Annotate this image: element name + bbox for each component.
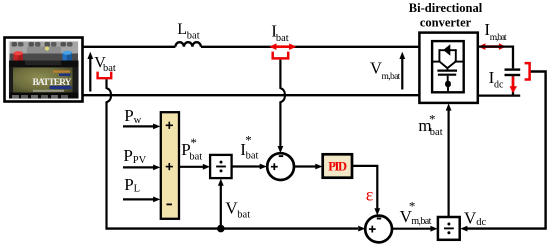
svg-text:bat: bat	[276, 33, 289, 44]
svg-text:bat: bat	[189, 151, 202, 162]
svg-text:w: w	[134, 115, 142, 126]
wire: top wire battery to inductor	[82, 46, 175, 48]
wire: m*_bat from divider D2 up to converter	[448, 110, 450, 218]
label I*_bat	[240, 132, 258, 161]
label I_dc	[489, 68, 504, 91]
label I_m,bat	[484, 20, 507, 43]
svg-text:PID: PID	[328, 160, 347, 174]
current probe I_m,bat (red double arrow)	[478, 43, 506, 50]
wire: P_PV input arrow	[123, 166, 154, 168]
wire: bottom wire to summer S2	[105, 227, 358, 229]
wire: V_dc from capacitor bracket to divider D2	[467, 72, 546, 229]
wire: summer S2 to divider D2	[392, 228, 431, 230]
wire: V_bat up into divider D1	[220, 185, 222, 229]
svg-text:P: P	[123, 146, 132, 165]
label P_w	[124, 106, 141, 126]
svg-text:P: P	[124, 175, 133, 194]
wire: I*_bat into summer S1	[232, 165, 261, 167]
svg-text:converter: converter	[420, 15, 472, 29]
current arrow I_dc (red down arrow)	[510, 77, 518, 94]
label V_dc	[464, 209, 486, 229]
wire: P_L input arrow	[123, 198, 154, 200]
wire: top wire inductor to converter	[201, 46, 420, 48]
svg-text:bat: bat	[187, 30, 200, 41]
svg-text:m,bat: m,bat	[490, 33, 507, 43]
svg-text:dc: dc	[476, 217, 486, 228]
wire: converter right second wire	[478, 94, 520, 96]
label m*_bat	[418, 112, 442, 139]
svg-text:*: *	[245, 132, 252, 147]
label I_bat	[271, 21, 289, 44]
inductor L1 (L_bat humps)	[175, 42, 201, 47]
probe bracket V_dc (red, right of capacitor)	[525, 63, 530, 79]
svg-text:*: *	[190, 135, 197, 150]
svg-text:Bi-directional: Bi-directional	[409, 1, 483, 15]
wire: PID output down to summer S2	[352, 166, 377, 209]
svg-text:bat: bat	[237, 209, 250, 220]
svg-text:m,bat: m,bat	[382, 72, 401, 82]
wire: second wire battery to converter	[82, 94, 420, 96]
wire: P*_bat to divider D1	[179, 166, 204, 168]
svg-text:bat: bat	[246, 151, 259, 162]
svg-text:bat: bat	[103, 63, 116, 74]
label V*_m,bat	[400, 199, 432, 227]
svg-text:L: L	[177, 21, 187, 38]
current probe I_bat (red double arrow)	[269, 43, 296, 58]
svg-text:PV: PV	[133, 155, 147, 166]
svg-text:*: *	[409, 199, 416, 214]
svg-text:V: V	[370, 58, 382, 77]
svg-text:V: V	[464, 209, 477, 228]
converter U1 outer box	[419, 33, 477, 103]
voltage arrow V_m,bat (black up arrow)	[399, 52, 405, 90]
label P*_bat	[181, 135, 202, 162]
summing block (power summer, beige)	[161, 112, 179, 219]
svg-text:ε: ε	[366, 184, 374, 204]
svg-text:*: *	[429, 112, 436, 127]
wire: converter right top to capacitor	[478, 47, 513, 69]
svg-text:P: P	[124, 106, 133, 125]
voltage arrow V_bat (black up arrow at battery)	[87, 52, 93, 92]
label V_bat (at divider)	[225, 199, 250, 221]
label V_bat (battery)	[94, 54, 116, 73]
probe bracket V_bat (red)	[98, 72, 112, 79]
wire: V_bat sense drop with hop over second wire	[107, 79, 111, 227]
summer S2 (circle)	[365, 216, 392, 243]
converter U1 inner box	[432, 41, 464, 92]
wire: P_w input arrow	[123, 125, 154, 127]
svg-text:L: L	[134, 184, 140, 195]
wire: I_bat sense drop with hop, into summer S1	[280, 60, 284, 147]
capacitor C1	[505, 70, 521, 95]
divider D1 (÷ block)	[210, 155, 232, 178]
label Bi-directional converter	[409, 1, 483, 30]
controller PID	[323, 154, 352, 177]
label P_L	[124, 175, 140, 195]
summer S1 (circle)	[267, 153, 294, 180]
label L_bat	[177, 21, 199, 42]
svg-text:bat: bat	[430, 127, 443, 138]
divider D2 (÷ block)	[438, 217, 460, 240]
label V_m,bat	[370, 58, 401, 82]
svg-text:dc: dc	[494, 80, 504, 91]
svg-text:m,bat: m,bat	[411, 216, 431, 227]
junction dot (V_bat tap)	[217, 225, 225, 233]
wire: summer S1 to PID	[294, 165, 316, 167]
battery B1 (photo inside frame)	[5, 38, 83, 102]
converter switch icon	[433, 44, 464, 92]
label P_PV	[123, 146, 146, 166]
